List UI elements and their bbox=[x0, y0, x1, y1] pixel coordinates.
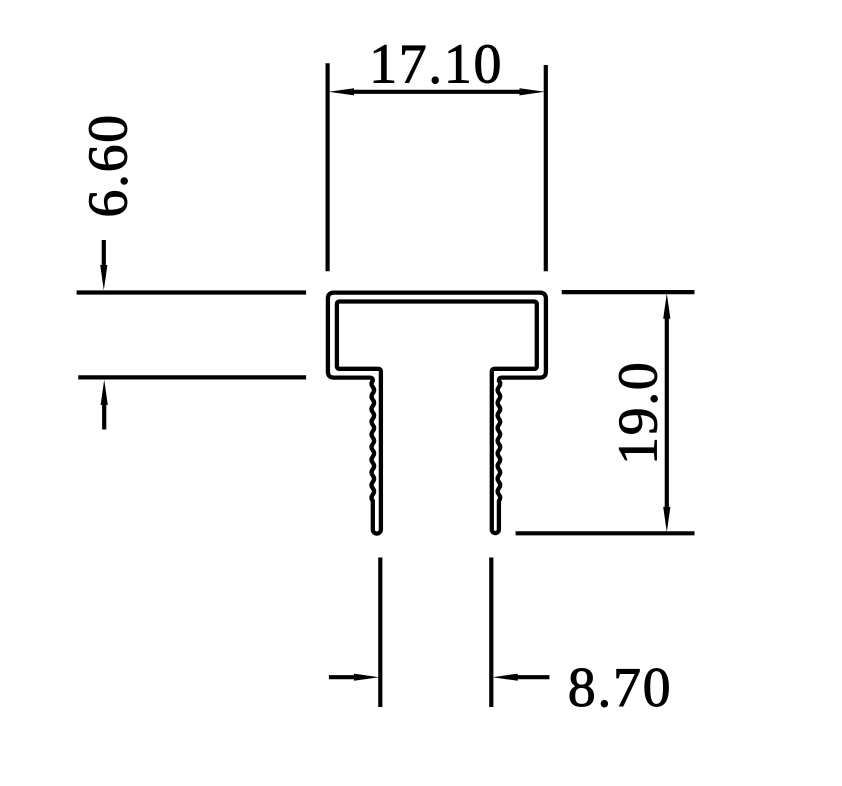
dimension 17.10: dimension line bbox=[354, 90, 520, 94]
dimension 6.60: lower arrowhead (points up) bbox=[101, 380, 108, 405]
svg-text:17.10: 17.10 bbox=[369, 34, 503, 96]
svg-text:6.60: 6.60 bbox=[78, 113, 140, 217]
dimension 8.70: right leader line bbox=[516, 675, 549, 679]
svg-text:19.0: 19.0 bbox=[607, 361, 669, 465]
dimension 19.0: dimension line bbox=[665, 318, 669, 508]
dimension 19.0: top extension line bbox=[562, 290, 695, 294]
dimension 19.0: top arrowhead (points up) bbox=[663, 293, 670, 318]
svg-text:8.70: 8.70 bbox=[568, 657, 672, 719]
dimension 19.0: bottom extension line bbox=[516, 531, 695, 535]
dimension 8.70: left arrowhead (points right) bbox=[354, 674, 379, 681]
dimension 17.10: left arrowhead bbox=[329, 88, 354, 95]
dimension 8.70: left extension line bbox=[378, 558, 382, 708]
dimension 6.60: lower extension line (cap bottom) bbox=[78, 375, 306, 379]
dimension 17.10: right extension line bbox=[544, 65, 548, 271]
dimension 6.60: upper extension line (cap top) bbox=[77, 290, 307, 294]
dimension 8.70: right extension line bbox=[489, 558, 493, 708]
dimension 8.70: left leader line bbox=[329, 675, 355, 679]
dimension 17.10: right arrowhead bbox=[520, 88, 545, 95]
dimension 17.10: left extension line bbox=[326, 63, 330, 271]
dimension 6.60: upper arrowhead (points down) bbox=[100, 265, 107, 290]
dimension 8.70: right arrowhead (points left) bbox=[492, 674, 517, 681]
profile outline (T-molding cross-section with barbed legs) bbox=[328, 293, 546, 534]
dimension 6.60: lower leader line bbox=[102, 404, 106, 430]
dimension 6.60: upper leader line bbox=[102, 240, 106, 268]
dimension 19.0: bottom arrowhead (points down) bbox=[663, 507, 670, 532]
